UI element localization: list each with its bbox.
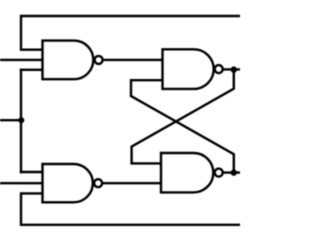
- nand gate G3 output bubble: [215, 65, 223, 73]
- wire enable to G1 bottom input: [21, 69, 43, 71]
- wire G1 output to G3 upper input: [103, 59, 162, 61]
- nand gate G4 (bottom-right, 2-input) body: [161, 153, 213, 192]
- nand gate G1 (top-left, 3-input) body: [43, 41, 94, 80]
- wire top feedback horizontal: [21, 16, 240, 50]
- wire input R (left edge to G2 middle input): [0, 182, 43, 184]
- wire G4 output to right edge: [224, 171, 241, 173]
- junction dot enable node: [18, 117, 24, 123]
- junction dot G3 output node: [231, 66, 237, 72]
- wire cross from G4 output up to G3 lower input: [131, 80, 234, 172]
- nand gate G3 (top-right, 2-input) body: [163, 49, 214, 89]
- wire input S (left edge to G1 middle input): [0, 59, 43, 61]
- nand gate G2 (bottom-left, 3-input) body: [43, 164, 93, 202]
- nand gate G1 output bubble: [95, 56, 103, 64]
- wire bottom feedback: [21, 193, 240, 224]
- nand gate G2 output bubble: [94, 179, 102, 187]
- junction dot G4 output node: [231, 169, 237, 175]
- wire enable vertical trunk: [20, 70, 22, 172]
- nand gate G4 output bubble: [215, 169, 223, 177]
- wire cross from G3 output down to G4 upper input: [132, 69, 234, 163]
- wire G3 output to right edge: [224, 68, 241, 70]
- wire enable horizontal from left edge: [0, 119, 21, 121]
- wire G2 output to G4 lower input: [103, 182, 161, 184]
- wire enable to G2 top input: [21, 171, 43, 173]
